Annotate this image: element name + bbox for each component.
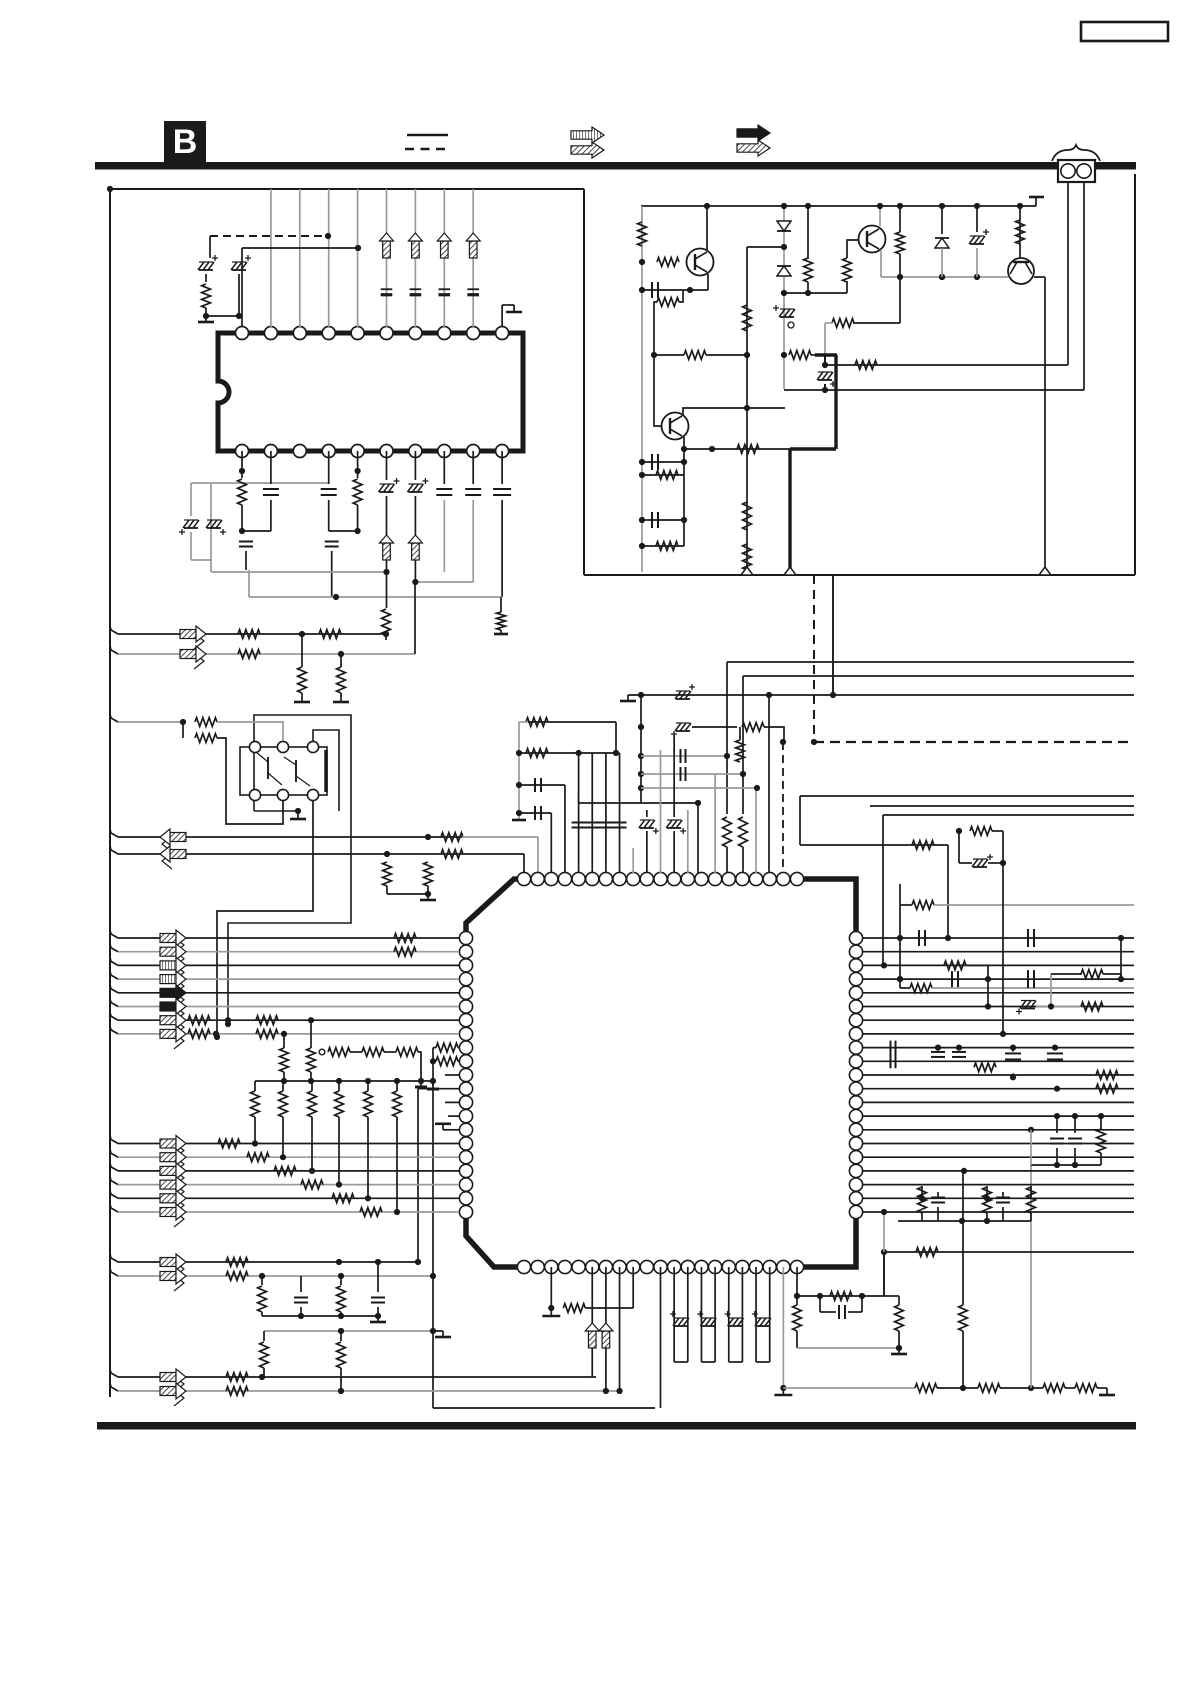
svg-text:B: B (173, 123, 198, 161)
